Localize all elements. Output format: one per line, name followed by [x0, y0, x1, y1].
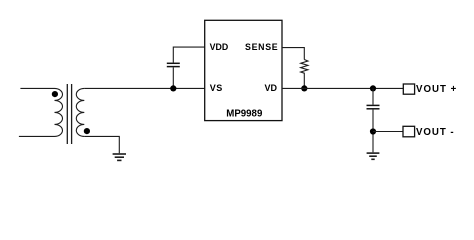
terminal square VOUT+: [403, 84, 414, 94]
svg-text:VD: VD: [265, 83, 278, 93]
wire capacitor C1 to rail: [172, 67, 174, 88]
transformer core line 1: [66, 84, 68, 144]
junction dot at output capacitor top: [370, 85, 376, 91]
svg-text:VOUT -: VOUT -: [416, 127, 455, 138]
wire secondary top to VS pin: [84, 87, 204, 89]
wire VD pin to VOUT+ terminal: [282, 87, 403, 89]
capacitor C2 plates: [367, 105, 380, 108]
wire SENSE pin to resistor: [282, 48, 304, 60]
terminal square VOUT-: [403, 126, 415, 137]
wire secondary bottom to ground: [84, 136, 119, 153]
wire capacitor C2 to VOUT- node and ground: [372, 110, 374, 153]
junction dot at C1 / VS rail: [170, 85, 176, 91]
polarity dot secondary: [84, 128, 90, 134]
junction dot at VOUT- node: [370, 128, 376, 134]
transformer T secondary winding: [76, 88, 84, 136]
wire rail to capacitor C2: [372, 88, 374, 104]
capacitor C1 plates: [167, 63, 180, 66]
svg-text:MP9989: MP9989: [226, 109, 263, 120]
svg-text:SENSE: SENSE: [245, 42, 278, 52]
wire VOUT- node to terminal: [373, 131, 403, 133]
svg-text:VOUT +: VOUT +: [416, 84, 457, 95]
svg-text:VDD: VDD: [210, 42, 229, 52]
svg-text:VS: VS: [210, 83, 223, 93]
transformer core line 2: [71, 84, 73, 144]
wire VDD pin to capacitor: [173, 47, 204, 62]
ground (output): [367, 153, 380, 159]
polarity dot primary: [52, 91, 58, 97]
transformer T primary winding: [19, 88, 63, 136]
ground (transformer): [113, 154, 126, 160]
resistor R1 (SENSE): [301, 60, 308, 89]
IC U1 MP9989 body: [205, 20, 282, 120]
junction dot resistor / VD rail: [301, 85, 307, 91]
